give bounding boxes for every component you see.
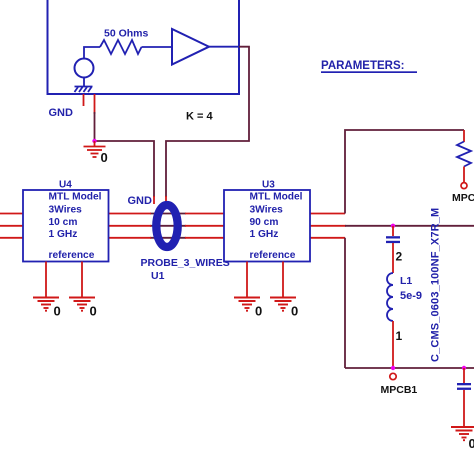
svg-text:90 cm: 90 cm xyxy=(250,217,279,228)
capacitor C2 plates xyxy=(386,236,400,238)
net wire amp output to probe xyxy=(166,47,249,197)
wire bus U4 to U3 (net mid segments) xyxy=(150,214,186,238)
wire bus U4 to U3 pin stubs xyxy=(109,214,225,238)
pin GND stub xyxy=(83,94,85,106)
capacitor C1 stub xyxy=(463,368,465,383)
net wire top rail xyxy=(345,130,464,214)
svg-text:0: 0 xyxy=(469,436,474,451)
svg-text:3Wires: 3Wires xyxy=(49,205,83,216)
pin 0 stub xyxy=(94,94,96,114)
port circle MPCB1 xyxy=(390,373,396,379)
inductor L1 coil xyxy=(387,273,393,321)
source V1 circle xyxy=(75,59,94,78)
wire cap to L1 xyxy=(392,243,394,273)
capacitor C1 plates xyxy=(457,383,471,385)
wire resistor to amp xyxy=(142,46,173,48)
pin stub probe right xyxy=(165,196,167,204)
wire amp output xyxy=(209,46,239,48)
pin stub resistor bottom xyxy=(463,167,465,183)
ground 0 under U4 left xyxy=(33,298,59,311)
U3 reference pins xyxy=(247,262,283,298)
U3 text block xyxy=(250,192,303,262)
svg-text:2: 2 xyxy=(396,250,403,264)
svg-text:U3: U3 xyxy=(262,180,275,191)
probe U1 ellipse xyxy=(156,205,177,247)
svg-text:0: 0 xyxy=(54,304,61,319)
ground 0 under U4 right xyxy=(69,298,95,311)
svg-text:1: 1 xyxy=(396,329,403,343)
svg-text:MPCB2: MPCB2 xyxy=(452,192,474,204)
svg-text:10 cm: 10 cm xyxy=(49,217,78,228)
U4 text block xyxy=(49,192,102,262)
svg-text:0: 0 xyxy=(291,304,298,319)
svg-text:GND: GND xyxy=(128,195,153,207)
junction dot xyxy=(391,366,395,370)
capacitor C2 stub xyxy=(392,226,394,236)
svg-text:1 GHz: 1 GHz xyxy=(250,229,279,240)
source subcircuit box (open top) xyxy=(48,0,240,94)
svg-text:0: 0 xyxy=(255,304,262,319)
resistor 50 Ohms zigzag xyxy=(100,40,142,54)
svg-text:0: 0 xyxy=(101,150,108,165)
net wire mid rail down xyxy=(344,238,346,368)
op-amp E1 triangle xyxy=(172,29,209,65)
svg-text:1 GHz: 1 GHz xyxy=(49,229,78,240)
resistor MPCB2 zigzag xyxy=(457,142,471,167)
wire L1 bottom xyxy=(392,321,394,368)
ground 0 under U3 right xyxy=(270,298,296,311)
junction dot xyxy=(92,139,96,143)
svg-text:K = 4: K = 4 xyxy=(186,111,213,123)
svg-text:5e-9: 5e-9 xyxy=(400,290,422,302)
junction dot xyxy=(462,366,466,370)
wire source top xyxy=(84,47,100,59)
svg-text:3Wires: 3Wires xyxy=(250,205,284,216)
net wire middle to right edge xyxy=(345,225,474,227)
wire bus left of U4 xyxy=(0,214,23,238)
svg-text:reference: reference xyxy=(49,250,95,261)
ground 0 symbol xyxy=(84,141,106,157)
svg-text:U4: U4 xyxy=(59,180,72,191)
wire cap to ground xyxy=(463,390,465,427)
svg-text:L1: L1 xyxy=(400,275,412,287)
MTL model U4 box xyxy=(23,190,109,262)
junction dot xyxy=(391,224,395,228)
wire bus right of U3 xyxy=(310,214,346,238)
ground 0 under U3 left xyxy=(234,298,260,311)
pin stub probe left xyxy=(153,196,155,204)
svg-text:GND: GND xyxy=(49,107,74,119)
svg-text:PARAMETERS:: PARAMETERS: xyxy=(321,60,404,72)
svg-text:MTL Model: MTL Model xyxy=(49,192,102,203)
svg-text:U1: U1 xyxy=(151,270,165,282)
net wire bottom rail xyxy=(345,367,474,369)
svg-text:0: 0 xyxy=(90,304,97,319)
U4 reference pins xyxy=(46,262,82,298)
svg-text:reference: reference xyxy=(250,250,296,261)
MTL model U3 box xyxy=(224,190,310,262)
svg-text:PROBE_3_WIRES: PROBE_3_WIRES xyxy=(141,257,230,269)
svg-text:MPCB1: MPCB1 xyxy=(381,384,418,396)
svg-text:C_CMS_0603_100NF_X7R_M: C_CMS_0603_100NF_X7R_M xyxy=(430,208,442,362)
port circle MPCB2 xyxy=(461,183,467,189)
svg-text:50 Ohms: 50 Ohms xyxy=(104,28,149,40)
net wire to ground junction xyxy=(95,112,155,197)
svg-text:MTL Model: MTL Model xyxy=(250,192,303,203)
underline xyxy=(321,71,417,73)
pin stub resistor top xyxy=(463,130,465,142)
ground 0 bottom right xyxy=(451,427,474,440)
chassis ground (inside box) xyxy=(75,78,93,93)
